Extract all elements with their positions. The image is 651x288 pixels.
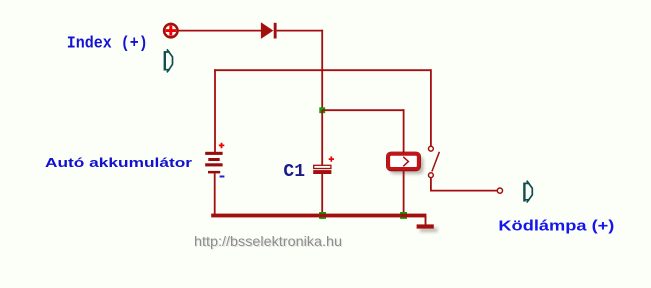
wire battery bottom to bus — [214, 173, 216, 214]
battery B1 plate 4 (short) — [208, 171, 220, 174]
ground stem — [425, 216, 427, 225]
wire top horizontal (battery to switch) — [214, 69, 431, 71]
terminal T2 open circle — [497, 188, 502, 193]
wire diode to corner — [277, 30, 324, 32]
switch S1 bottom contact — [429, 173, 434, 178]
junction J3 wire overlay — [400, 214, 407, 218]
battery B1 plate 3 (long) — [205, 163, 222, 166]
terminal T1 plus mark — [166, 25, 176, 35]
svg-text:Ködlámpa (+): Ködlámpa (+) — [498, 218, 614, 235]
wire terminal to diode — [178, 30, 261, 32]
capacitor C1 plus mark — [329, 156, 334, 161]
capacitor C1 bottom plate (filled) — [313, 170, 331, 174]
junction J3 (relay to bus) — [400, 212, 407, 219]
terminal T1 (+) ring — [164, 24, 177, 37]
wire capacitor to bus — [321, 174, 323, 215]
wire vertical down to relay — [403, 109, 405, 153]
ground bar — [417, 224, 434, 228]
svg-text:http://bsselektronika.hu: http://bsselektronika.hu — [194, 233, 342, 249]
relay coil K1 outer edge — [386, 152, 420, 171]
battery B1 plus mark — [219, 143, 225, 149]
svg-text:Index (+): Index (+) — [67, 33, 148, 52]
port P2 (Ködlámpa) — [524, 181, 533, 203]
relay coil K1 chevron — [403, 157, 408, 167]
battery B1 minus mark — [220, 176, 225, 178]
ground bus (thick bottom wire) — [211, 214, 426, 218]
battery B1 plate 2 (short) — [208, 158, 219, 161]
diode D1 triangle — [261, 22, 273, 39]
switch S1 blade — [432, 152, 440, 172]
svg-text:Autó akkumulátor: Autó akkumulátor — [45, 155, 192, 170]
wire vertical down to switch — [430, 69, 432, 146]
junction J2 wire overlay — [319, 214, 326, 218]
junction J2 (capacitor to bus) — [319, 212, 326, 219]
wire junction down to capacitor — [321, 110, 323, 165]
switch S1 top contact — [429, 146, 434, 151]
ground bar shadow — [420, 228, 437, 232]
relay coil K1 shadow — [390, 157, 424, 175]
wire vertical from diode corner down to junction — [321, 30, 323, 111]
junction J1 — [319, 107, 325, 113]
wire vertical battery top — [214, 69, 216, 152]
port P1 (Index) — [164, 49, 173, 72]
battery B1 plate 1 (long) — [205, 152, 222, 155]
wire relay to bus — [403, 171, 405, 215]
svg-text:C1: C1 — [283, 162, 305, 182]
wire switch to output — [431, 178, 497, 191]
wire junction to relay corner — [322, 109, 404, 111]
diode D1 cathode bar — [274, 23, 277, 39]
relay coil K1 body — [388, 154, 418, 169]
capacitor C1 top plate (hollow) — [314, 165, 331, 168]
